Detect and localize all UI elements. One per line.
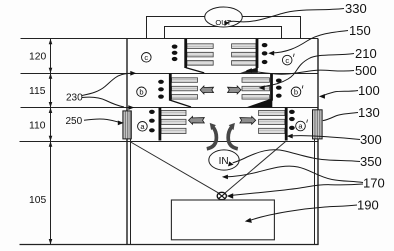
electrode bars c-right [232, 44, 256, 65]
leader 300 [291, 136, 361, 140]
svg-text:230: 230 [66, 92, 83, 103]
svg-text:b: b [139, 88, 143, 97]
label circle a [138, 122, 148, 132]
svg-text:350: 350 [360, 154, 382, 169]
dots c-right [262, 43, 268, 64]
svg-text:500: 500 [355, 63, 377, 78]
funnel left diagonal [130, 142, 220, 194]
svg-text:OUT: OUT [215, 18, 231, 27]
label circle a-prime [296, 121, 306, 131]
svg-text:150: 150 [349, 23, 371, 38]
label circle c [142, 53, 152, 63]
block arrow a-right [240, 116, 256, 124]
bottom line y=244.5 [20, 244, 319, 246]
dots a-right [289, 110, 295, 130]
diagonal c-left [186, 68, 205, 73]
svg-text:115: 115 [29, 86, 46, 97]
svg-text:IN: IN [219, 156, 229, 167]
leader 350 [233, 150, 360, 163]
block arrow b-left [200, 86, 213, 94]
IN ellipse [209, 150, 239, 170]
leader 170 branch lower [232, 184, 364, 195]
electrode bars a-left [161, 110, 186, 133]
leader 210 [262, 54, 354, 88]
leader 150 [272, 31, 349, 54]
dots b-left [158, 80, 164, 99]
svg-text:b: b [294, 88, 298, 97]
dots a-left [149, 110, 155, 133]
block arrow a-left [189, 116, 205, 124]
electrode bars c-left [187, 44, 213, 65]
diagonal b-left [170, 100, 191, 107]
svg-text:170: 170 [363, 176, 385, 191]
dots c-left [172, 45, 178, 62]
svg-text:120: 120 [29, 52, 46, 63]
svg-text:330: 330 [345, 1, 367, 16]
curved arrow left [207, 127, 217, 149]
device outer right wall [317, 39, 319, 245]
inner wall left [130, 139, 132, 245]
wire outer left [147, 17, 205, 39]
leader 190 [250, 205, 357, 221]
inner wall right [314, 139, 316, 245]
leader 330 [226, 9, 344, 24]
svg-text:300: 300 [360, 132, 382, 147]
electrode bars b-left [172, 78, 198, 99]
electrode bars b-right [242, 78, 270, 99]
spine c-left [184, 39, 187, 68]
leader 130 [323, 113, 358, 121]
hatched block right (130) [313, 110, 323, 139]
svg-text:210: 210 [355, 46, 377, 61]
OUT ellipse [205, 7, 243, 27]
svg-text:c: c [144, 53, 148, 62]
label circle b-prime [291, 87, 301, 97]
extension line y=107.5 / row b-a boundary [21, 107, 319, 109]
spine b-right [270, 73, 273, 101]
spine b-left [169, 73, 172, 101]
wire inner loop [165, 27, 282, 39]
svg-text:110: 110 [29, 121, 46, 132]
block arrow b-right [228, 86, 241, 94]
label circle b [137, 87, 147, 97]
svg-text:190: 190 [357, 198, 379, 213]
spine a-left [158, 108, 161, 141]
funnel right diagonal [225, 142, 286, 194]
extension line y=38.8 / device top [21, 38, 319, 40]
leader 500 [250, 70, 355, 74]
dimension arrowheads [49, 39, 53, 245]
dimension vertical line [50, 39, 52, 245]
svg-text:105: 105 [29, 195, 46, 206]
diagonal wedge c-right [240, 67, 258, 73]
spine a-right [285, 108, 288, 141]
label circle c-prime [282, 55, 292, 65]
wire outer right [241, 17, 301, 39]
curved arrow right [228, 127, 238, 149]
leader 100 [323, 91, 359, 96]
svg-text:130: 130 [358, 105, 380, 120]
svg-text:250: 250 [66, 116, 83, 127]
electrode bars a-right [259, 110, 285, 133]
svg-text:c: c [285, 56, 289, 65]
extension line y=73.2 / row c-b boundary [21, 73, 319, 75]
spine c-right [256, 39, 259, 68]
device outer left wall [126, 39, 128, 245]
diagonal wedge b-right [247, 98, 273, 107]
hatched block left (250) [123, 111, 131, 139]
detector rectangle 190 [171, 200, 274, 240]
extension line y=141.2 / row a bottom [20, 141, 319, 143]
leader 170 branch upper [226, 166, 364, 182]
orifice circle-x 170 [217, 192, 226, 199]
dots b-right [276, 79, 282, 98]
svg-text:100: 100 [358, 83, 380, 98]
